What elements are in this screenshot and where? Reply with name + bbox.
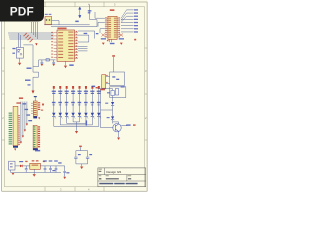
wire [20, 102, 22, 142]
wire [59, 89, 61, 113]
aux connector body [102, 75, 106, 89]
aux connector label [100, 89, 105, 90]
ground under X3 [12, 173, 15, 175]
wire [26, 102, 28, 124]
frame row/column labels [2, 3, 147, 192]
diagonal red net labels [24, 33, 33, 42]
U1 left pin numbers [51, 32, 53, 58]
wire [20, 35, 22, 47]
wire [78, 50, 88, 52]
U1 right pin numbers [76, 31, 78, 58]
labels on vertical net [27, 68, 32, 69]
rev value mark [99, 178, 101, 179]
resistor R4 value label [65, 91, 69, 92]
header JP2 body [33, 101, 37, 116]
aux supply mark [112, 55, 115, 57]
capacitor C7 [86, 157, 89, 158]
resistor R2 value label [52, 91, 56, 92]
J1 dark block below [13, 146, 18, 148]
LED common trunk [76, 122, 78, 131]
cap label [54, 160, 58, 161]
U1 right pin names [68, 32, 73, 59]
cap C5 [25, 166, 28, 173]
D10 label [105, 103, 108, 104]
JP2 pin names [34, 102, 37, 115]
net labels right column [134, 9, 138, 32]
stubs under U2 [109, 39, 111, 42]
vertical label left [86, 120, 88, 125]
JP2 red marks right [38, 102, 40, 103]
diagonal jogs to top labels [121, 10, 127, 23]
sheet value mark [128, 178, 131, 179]
ground LED array [75, 131, 78, 134]
red dot below labels [134, 39, 136, 41]
emitter to ground [118, 131, 120, 137]
J1 red arrow below [14, 149, 16, 151]
wire down [113, 57, 115, 72]
svg-text:PDF: PDF [10, 5, 34, 19]
mr mark [99, 171, 102, 172]
resistor R9 [98, 86, 100, 89]
LED D3 [59, 113, 62, 116]
wire from Q1 [52, 21, 59, 25]
capacitor C6 [74, 157, 77, 158]
LED D11 [111, 116, 114, 119]
red arrow at net end [32, 91, 35, 94]
capacitor [44, 166, 47, 173]
cap pair supply mark [79, 146, 82, 148]
red dot [107, 40, 109, 41]
J3 green pin labels [34, 126, 36, 147]
label right [126, 124, 130, 125]
wire [112, 120, 114, 124]
label right branch [58, 162, 61, 163]
wire [22, 102, 24, 136]
wire right of transistor [121, 125, 127, 127]
JP2 dark block [33, 116, 37, 118]
label under U1 [69, 64, 73, 66]
JP2 red supply arrow [42, 104, 44, 107]
wire [106, 76, 110, 78]
wires bottom cap pair [76, 159, 88, 164]
wire [10, 38, 54, 40]
LED D4 [65, 113, 68, 116]
connector J1 body [13, 106, 18, 145]
wire from X2 right [23, 44, 33, 46]
op MCU U1 box [57, 30, 75, 61]
label near arrow [75, 21, 78, 23]
resistor R3 value label [58, 91, 62, 92]
U1 ground wire [65, 61, 67, 65]
wire [9, 34, 54, 36]
resistor R4 [66, 86, 68, 89]
U2 right pins [117, 18, 120, 37]
date value mark [106, 178, 119, 179]
R10 label [107, 92, 110, 93]
wire to common [73, 117, 76, 122]
filename segment [114, 183, 125, 185]
aux loop 1 [110, 72, 125, 86]
wire to common [77, 117, 93, 125]
LED D5 [71, 113, 74, 116]
wire [31, 22, 33, 33]
wires left of U2 [95, 12, 105, 18]
wire [78, 45, 88, 47]
power rail bottom [11, 171, 62, 173]
net label [24, 109, 28, 110]
frame outer border [2, 2, 147, 191]
wires right of U2 to labels [121, 10, 134, 32]
wires cap pair [80, 147, 82, 150]
J3 red pads [38, 126, 40, 147]
label [88, 12, 91, 13]
PDF badge [0, 0, 44, 22]
row3 filename marks [99, 183, 113, 185]
page background [0, 0, 149, 198]
J1 pin numbers red [18, 115, 20, 145]
sub circuit left under U2 [102, 34, 106, 37]
U1 left pin names [58, 32, 63, 58]
power connector X3 [9, 161, 15, 170]
resistor R7 [85, 86, 87, 89]
JP2 pins left [31, 103, 33, 113]
label [49, 14, 52, 15]
JP2 gray label [41, 110, 43, 111]
D1 label [19, 161, 23, 162]
resistor R3 [59, 86, 61, 89]
crystal circuit: top wire [39, 59, 56, 61]
LED D5 name label [71, 102, 75, 103]
LED D8 [91, 113, 94, 116]
LED D6 name label [78, 102, 82, 103]
red dot [106, 82, 107, 83]
label under U2 [110, 43, 115, 44]
U2 pin numbers [105, 17, 119, 37]
LED D6 [78, 113, 81, 116]
supply label [92, 86, 96, 88]
7805 label [35, 150, 40, 152]
crystal X1 [46, 59, 49, 61]
arrow head [26, 124, 28, 126]
wire to common [77, 117, 99, 127]
label IC1 [57, 28, 66, 30]
resistor R10 [111, 90, 114, 95]
supply double arrow [79, 7, 81, 18]
transistor collector top wire [113, 122, 119, 124]
ground under U1 [64, 66, 67, 69]
transistor Q1 [113, 124, 121, 132]
oscillator X2 box [16, 47, 23, 58]
X2 labels [12, 48, 15, 49]
frame tick marks [2, 2, 147, 191]
loop closing wire [101, 109, 113, 111]
X2 interior marks [17, 49, 20, 50]
long vertical net [33, 45, 39, 91]
resistor R8 [91, 86, 93, 89]
horizontal wires above MCU [44, 24, 90, 26]
wire [33, 22, 35, 35]
resistor R6 value label [77, 91, 81, 92]
resistor R2 [53, 86, 55, 89]
IC3 red labels above [32, 160, 35, 161]
resistor R8 value label [90, 91, 94, 92]
wire [91, 89, 93, 113]
arrow head [22, 136, 24, 138]
net label [84, 33, 88, 34]
LED D3 name label [58, 102, 62, 103]
wire U1 pin row to right [78, 31, 95, 39]
wire to common [60, 117, 76, 125]
diode D1 [20, 165, 23, 168]
wire [112, 106, 114, 117]
LED D8 name label [90, 102, 94, 103]
D11 label [107, 117, 110, 118]
sub circuit right under U2 [120, 34, 124, 37]
wire to common [77, 117, 80, 122]
wire to common [77, 117, 86, 124]
stub [111, 39, 113, 42]
aux loop 2 [110, 87, 126, 98]
TITLE header mark [99, 168, 102, 171]
title block [98, 168, 146, 187]
wire [78, 48, 88, 50]
resistor R6 [79, 86, 81, 89]
X2 ground [19, 58, 21, 63]
wire to vertical net [33, 60, 39, 67]
wire [24, 102, 26, 130]
regulator IC3 [30, 163, 41, 169]
arrow head [20, 142, 22, 144]
wire to common [54, 117, 77, 127]
wire [72, 89, 74, 113]
U1 left pins [54, 33, 57, 58]
power rail top [15, 165, 65, 167]
IC U2 box [108, 16, 117, 39]
wire [66, 89, 68, 113]
aux loop2 component [115, 89, 118, 95]
U2 pin names inside [108, 18, 116, 38]
cap label [43, 160, 47, 161]
U2 left pins [105, 18, 108, 37]
regulator ground [33, 169, 35, 174]
net label [96, 33, 99, 34]
cap C2 [52, 60, 55, 64]
frame inner border [5, 7, 145, 187]
right branch cap [64, 166, 66, 171]
U1 right pins [75, 32, 78, 58]
cap C1 [41, 60, 44, 64]
wire [112, 96, 114, 102]
drops to oscillator X2 [18, 33, 20, 47]
resistor R9 value label [97, 91, 101, 92]
resistor R5 value label [71, 91, 75, 92]
capacitor [49, 166, 52, 173]
supply arrow on bus [35, 43, 37, 45]
ground under C1 [41, 64, 44, 66]
label [88, 10, 92, 11]
wire conn bottom [10, 170, 12, 173]
JP2 top tick [34, 96, 37, 97]
wire [53, 89, 55, 113]
LED D7 [84, 113, 87, 116]
wires transistor circuit [98, 89, 114, 128]
LED D2 name label [52, 102, 56, 103]
wire [98, 89, 100, 113]
J1 pin labels green [9, 113, 13, 145]
cap label [49, 160, 53, 161]
net label [22, 103, 26, 104]
JP2 red arrow below [38, 117, 40, 119]
LED D7 name label [84, 102, 88, 103]
label value of Q1 [45, 14, 48, 15]
wires from connector to loops [106, 75, 107, 76]
wire to common [67, 117, 77, 124]
net label [26, 114, 30, 115]
wire [79, 89, 81, 113]
wire [37, 22, 39, 39]
resistor R5 [72, 86, 74, 89]
wire [8, 32, 54, 34]
filename segment [126, 183, 138, 185]
J1 name label [19, 97, 23, 99]
header J3 body [33, 125, 37, 148]
crystal Q1 [45, 17, 52, 25]
net label [28, 120, 32, 121]
wires MCU to U2 [90, 5, 97, 27]
wire [78, 35, 89, 42]
capacitor [55, 166, 58, 173]
LED D9 name label [97, 102, 101, 103]
wire [9, 36, 54, 38]
diode D10 [111, 102, 114, 105]
J3 dark block below [33, 148, 38, 150]
resistor R7 value label [84, 91, 88, 92]
arrow head [24, 130, 26, 132]
J1 second label [16, 102, 21, 104]
cap labels [78, 154, 81, 155]
LED D9 [97, 113, 100, 116]
LED D2 [52, 113, 55, 116]
svg-text:Design 3/2: Design 3/2 [106, 170, 121, 174]
row2 header marks [99, 174, 102, 177]
wire [85, 89, 87, 113]
label U2 [110, 9, 115, 11]
wire [35, 22, 37, 37]
ground under C2 [52, 64, 55, 66]
LED D4 name label [65, 102, 69, 103]
JP2 top wire [34, 97, 36, 101]
